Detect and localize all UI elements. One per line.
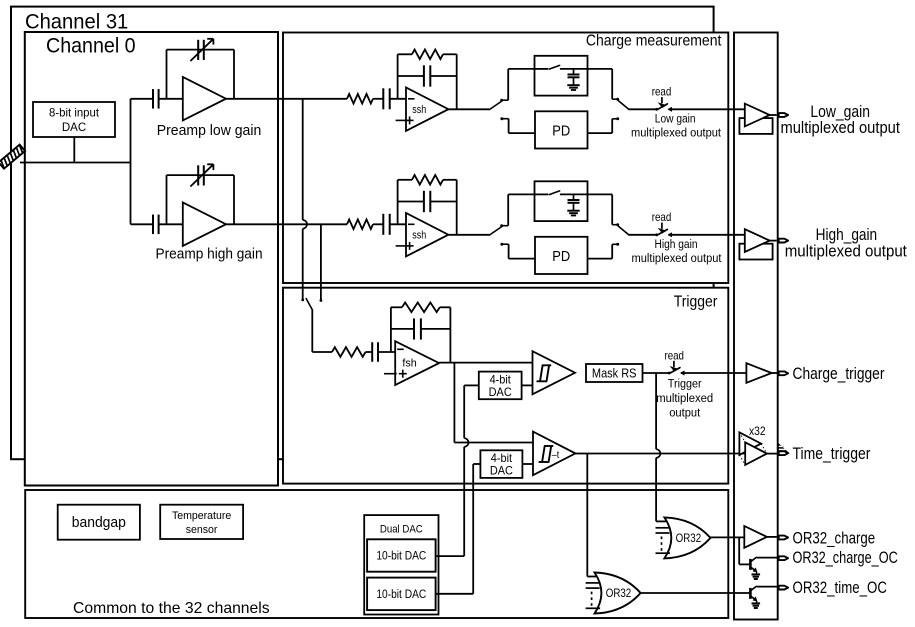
svg-text:10-bit DAC: 10-bit DAC bbox=[376, 550, 426, 563]
svg-text:Trigger: Trigger bbox=[668, 378, 702, 391]
svg-text:Trigger: Trigger bbox=[674, 294, 718, 311]
svg-text:DAC: DAC bbox=[489, 387, 512, 399]
svg-text:Channel 31: Channel 31 bbox=[25, 10, 128, 33]
svg-text:Preamp low gain: Preamp low gain bbox=[157, 123, 262, 139]
svg-text:OR32: OR32 bbox=[676, 532, 702, 545]
svg-text:PD: PD bbox=[552, 248, 570, 264]
svg-text:High gain: High gain bbox=[654, 239, 697, 252]
svg-text:DAC: DAC bbox=[62, 122, 86, 134]
svg-text:OR32_time_OC: OR32_time_OC bbox=[793, 578, 887, 597]
svg-text:multiplexed output: multiplexed output bbox=[785, 242, 908, 261]
svg-text:OR32: OR32 bbox=[606, 587, 632, 600]
svg-text:Common to the 32 channels: Common to the 32 channels bbox=[73, 600, 270, 617]
svg-text:Channel 0: Channel 0 bbox=[46, 35, 136, 58]
svg-text:DAC: DAC bbox=[490, 465, 513, 477]
svg-text:multiplexed output: multiplexed output bbox=[631, 127, 722, 139]
svg-text:Time_trigger: Time_trigger bbox=[793, 445, 871, 464]
svg-text:Preamp high gain: Preamp high gain bbox=[155, 245, 262, 261]
svg-text:read: read bbox=[664, 350, 684, 363]
svg-text:4-bit: 4-bit bbox=[491, 453, 513, 465]
svg-text:8-bit input: 8-bit input bbox=[49, 107, 100, 119]
svg-text:sensor: sensor bbox=[186, 524, 218, 536]
svg-text:Mask RS: Mask RS bbox=[592, 367, 637, 381]
svg-text:4-bit: 4-bit bbox=[490, 374, 512, 386]
svg-text:Charge measurement: Charge measurement bbox=[586, 33, 722, 50]
svg-text:Temperature: Temperature bbox=[172, 510, 231, 522]
svg-text:ssh: ssh bbox=[412, 104, 426, 116]
svg-text:Low gain: Low gain bbox=[655, 113, 696, 126]
svg-text:multiplexed output: multiplexed output bbox=[632, 253, 723, 265]
svg-text:x32: x32 bbox=[749, 425, 766, 438]
svg-text:bandgap: bandgap bbox=[72, 515, 126, 531]
svg-text:multiplexed output: multiplexed output bbox=[780, 119, 900, 137]
svg-text:Charge_trigger: Charge_trigger bbox=[793, 365, 885, 384]
svg-text:multiplexed: multiplexed bbox=[656, 392, 713, 405]
svg-text:read: read bbox=[652, 86, 672, 99]
svg-text:read: read bbox=[652, 211, 672, 224]
svg-text:–t: –t bbox=[552, 450, 560, 462]
svg-text:Dual DAC: Dual DAC bbox=[380, 523, 423, 536]
svg-text:ssh: ssh bbox=[412, 230, 426, 242]
svg-text:output: output bbox=[669, 407, 701, 419]
svg-text:fsh: fsh bbox=[402, 358, 416, 370]
svg-text:OR32_charge_OC: OR32_charge_OC bbox=[793, 548, 898, 567]
svg-text:OR32_charge: OR32_charge bbox=[793, 529, 876, 548]
svg-text:PD: PD bbox=[552, 123, 570, 139]
svg-text:10-bit DAC: 10-bit DAC bbox=[376, 588, 426, 601]
